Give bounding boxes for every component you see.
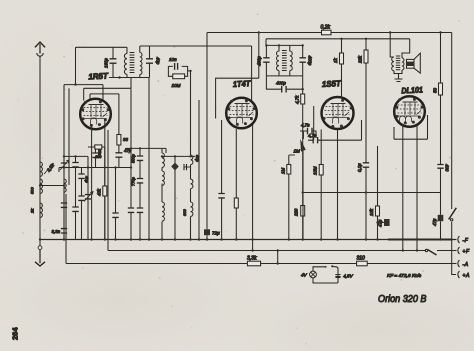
ground electrode bbox=[35, 240, 45, 267]
svg-text:40k: 40k bbox=[97, 188, 102, 196]
svg-text:4,7k: 4,7k bbox=[295, 95, 300, 104]
svg-text:4,7n: 4,7n bbox=[301, 123, 310, 128]
osc coil L3c bbox=[182, 202, 193, 240]
wire x115.5 column bbox=[112, 168, 118, 240]
capacitor x184 bbox=[184, 164, 191, 170]
antenna coil L1a bbox=[40, 162, 42, 176]
svg-text:-F: -F bbox=[463, 238, 469, 244]
svg-text:DL101: DL101 bbox=[401, 85, 423, 95]
V2 box bbox=[216, 78, 259, 118]
wire V1 cathode drop bbox=[91, 125, 93, 239]
resistor 40k bbox=[97, 186, 107, 196]
wire T1 left drop bbox=[75, 47, 77, 84]
wire V1 box top bbox=[84, 88, 131, 100]
svg-text:3,3k: 3,3k bbox=[247, 256, 257, 262]
resistor x236 bbox=[234, 129, 238, 240]
speaker cone bbox=[414, 53, 420, 73]
resistor 3,3k bbox=[247, 256, 261, 266]
svg-text:400p: 400p bbox=[308, 56, 313, 66]
wire V1 inner line bbox=[90, 94, 119, 135]
potentiometer 1M bbox=[294, 131, 306, 240]
wire tie y185 bbox=[40, 185, 64, 187]
capacitor 4,7n b bbox=[308, 133, 362, 143]
wire V4 fil drops bbox=[403, 124, 417, 251]
resistor 1k bbox=[333, 39, 344, 98]
resistor 150 bbox=[95, 145, 102, 159]
svg-text:220: 220 bbox=[294, 208, 299, 217]
svg-text:1S5T: 1S5T bbox=[322, 79, 342, 89]
capacitor 400p left bbox=[257, 45, 270, 76]
coil T2 primary bbox=[277, 45, 279, 76]
wire T1 bottom drop bbox=[130, 78, 132, 89]
rail R3 bbox=[140, 46, 252, 103]
osc coil L2a bbox=[162, 148, 164, 167]
B+ rail R1 bbox=[207, 33, 456, 275]
wire x75 column bbox=[72, 156, 78, 239]
svg-text:0,1μ: 0,1μ bbox=[357, 163, 362, 172]
terminal -F bbox=[453, 236, 469, 244]
svg-text:4V: 4V bbox=[301, 273, 308, 278]
capacitor 47u a bbox=[378, 219, 390, 227]
antenna coil L1c bbox=[40, 203, 42, 217]
battery 4,5V bbox=[313, 274, 354, 284]
switch lamp bbox=[313, 265, 338, 283]
resistor 50 bbox=[433, 33, 443, 165]
tube V2 1T4T bbox=[226, 98, 257, 129]
core T2 bbox=[282, 51, 287, 71]
speaker magnet bbox=[407, 59, 415, 68]
svg-text:1M: 1M bbox=[294, 149, 301, 154]
wire x199 bbox=[198, 100, 200, 240]
svg-text:40p: 40p bbox=[85, 176, 90, 183]
wire x131 drop bbox=[130, 88, 132, 207]
terminal +F bbox=[453, 247, 470, 255]
coil T1 secondary bbox=[140, 46, 142, 78]
svg-text:+A: +A bbox=[463, 273, 471, 279]
resistor 220 bbox=[294, 206, 305, 240]
wire V3 cathode bbox=[337, 130, 339, 240]
tube V3 1S5T bbox=[321, 97, 354, 129]
tuning diamond bbox=[171, 156, 179, 239]
svg-text:4,7n: 4,7n bbox=[308, 133, 317, 138]
output transformer secondary bbox=[399, 58, 405, 74]
svg-text:10M: 10M bbox=[172, 83, 181, 88]
capacitor 72u bbox=[204, 152, 220, 240]
V4 box bbox=[394, 115, 428, 139]
capacitor x140 low bbox=[137, 206, 143, 240]
svg-text:10k: 10k bbox=[369, 208, 374, 216]
coil T2 secondary bbox=[290, 45, 292, 76]
wire T2 bottom bbox=[266, 75, 302, 77]
svg-text:Orion 320 B: Orion 320 B bbox=[378, 294, 427, 305]
antenna bbox=[35, 42, 45, 240]
wire AF coupling y192.5 bbox=[303, 192, 441, 194]
svg-text:400: 400 bbox=[445, 164, 450, 172]
wire x258.8 drop bbox=[258, 33, 260, 79]
switch S2 on B+ line bbox=[449, 208, 457, 221]
wire AVC line bbox=[148, 78, 150, 240]
capacitor 400p bottom bbox=[266, 76, 302, 93]
resistor 22k bbox=[358, 39, 369, 159]
resistor 10M grid bbox=[313, 130, 324, 240]
svg-text:770p: 770p bbox=[131, 176, 136, 186]
svg-text:310: 310 bbox=[357, 256, 366, 262]
wire V1 screen line bbox=[64, 85, 103, 101]
ground bus bbox=[40, 239, 456, 241]
terminal +A bbox=[458, 271, 470, 279]
wire V1 fil drop bbox=[104, 121, 106, 240]
wire x104.8 bbox=[104, 147, 106, 240]
capacitor x131 low bbox=[128, 207, 134, 240]
svg-text:-A: -A bbox=[463, 262, 469, 268]
wire speaker B+ drop bbox=[390, 33, 394, 58]
antenna coil L1b bbox=[40, 179, 42, 193]
osc coil L3b bbox=[191, 165, 193, 202]
svg-text:KF = 472,6 Kc/s: KF = 472,6 Kc/s bbox=[387, 273, 422, 279]
bus +F bbox=[108, 130, 456, 251]
svg-text:264: 264 bbox=[11, 327, 20, 340]
core T1 bbox=[130, 53, 135, 73]
svg-text:400p: 400p bbox=[257, 56, 262, 66]
capacitor 40p bbox=[146, 46, 161, 70]
terminal -A bbox=[453, 260, 469, 268]
svg-text:150: 150 bbox=[95, 155, 102, 159]
svg-text:4,5V: 4,5V bbox=[343, 274, 353, 279]
svg-text:400p: 400p bbox=[276, 81, 286, 86]
svg-text:1T4T: 1T4T bbox=[233, 79, 252, 89]
wire antenna down lead bbox=[39, 56, 41, 239]
resistor 10k bbox=[369, 146, 380, 240]
wire tie y167 bbox=[59, 168, 88, 173]
trimmer cap C64 bbox=[60, 156, 69, 177]
svg-text:500p: 500p bbox=[131, 153, 136, 163]
wire tie y156 osc bbox=[162, 155, 195, 157]
switch S1 on +F bus bbox=[425, 249, 436, 255]
capacitor 160p bbox=[104, 47, 117, 77]
wire x88 column bbox=[84, 156, 93, 239]
svg-text:40p: 40p bbox=[156, 57, 161, 65]
osc coil L2b bbox=[162, 168, 164, 203]
resistor 1M grid bbox=[281, 155, 296, 240]
trimmer arrow L1 bbox=[44, 164, 54, 175]
tube V1 1R5T bbox=[80, 99, 111, 130]
wire x252.6 bbox=[252, 125, 254, 251]
wire left long bbox=[63, 85, 65, 240]
svg-text:0,2k: 0,2k bbox=[321, 25, 331, 31]
wire T1 bottom bbox=[109, 70, 150, 78]
wire osc tie y148 bbox=[125, 148, 166, 153]
capacitor 47u b bbox=[432, 168, 444, 239]
svg-text:72μ: 72μ bbox=[212, 231, 220, 236]
resistor 0,2k bbox=[321, 25, 332, 35]
svg-text:+F: +F bbox=[463, 249, 471, 255]
resistor 10M bbox=[168, 71, 190, 88]
resistor 4,7k bbox=[295, 89, 305, 205]
osc coil L2c bbox=[162, 202, 164, 240]
svg-text:1M: 1M bbox=[281, 168, 286, 174]
IF transformer T2 top bbox=[266, 44, 302, 46]
capacitor 25n bbox=[88, 147, 105, 168]
capacitor 0,1u bbox=[357, 159, 369, 240]
resistor 310 bbox=[357, 256, 368, 266]
svg-text:33: 33 bbox=[123, 137, 128, 142]
bus -A bbox=[66, 194, 456, 264]
svg-text:22k: 22k bbox=[358, 55, 363, 64]
rail R2 bbox=[266, 39, 410, 58]
svg-text:160p: 160p bbox=[104, 58, 109, 68]
svg-text:600: 600 bbox=[182, 209, 187, 216]
wire tie y156 bbox=[64, 155, 88, 157]
wire -A to +F link bbox=[277, 251, 279, 264]
output transformer primary bbox=[392, 57, 399, 74]
capacitor 770p bbox=[131, 176, 144, 206]
capacitor 500p bbox=[131, 148, 144, 176]
capacitor 400p right bbox=[300, 45, 313, 76]
dial lamp bbox=[301, 271, 316, 278]
wire x69 bbox=[68, 88, 70, 185]
svg-text:47μ: 47μ bbox=[432, 218, 437, 226]
coil T1 primary bbox=[124, 47, 127, 77]
svg-text:3,3n: 3,3n bbox=[52, 229, 61, 234]
wire x81.5 column bbox=[78, 168, 89, 240]
svg-text:1k: 1k bbox=[333, 58, 338, 63]
wire V3 underline bbox=[314, 106, 362, 140]
svg-text:10M: 10M bbox=[313, 166, 318, 175]
capacitor x64 low bbox=[61, 192, 67, 225]
capacitor 400p out bbox=[437, 164, 449, 172]
RC grid combo 10n bbox=[168, 57, 187, 71]
svg-text:50: 50 bbox=[433, 88, 438, 93]
coil x64 bbox=[64, 179, 66, 192]
capacitor 3,3n bbox=[52, 225, 68, 240]
wire x221.6 bbox=[218, 120, 224, 240]
speaker ground bbox=[395, 74, 403, 82]
capacitor 4,7n a bbox=[300, 123, 316, 139]
svg-text:1R5T: 1R5T bbox=[88, 71, 109, 81]
tube V4 DL101 bbox=[394, 96, 425, 127]
wire tie y167b bbox=[105, 167, 131, 169]
svg-text:500: 500 bbox=[30, 187, 35, 194]
IF transformer T1 top line bbox=[76, 46, 128, 48]
resistor 33k bbox=[115, 135, 131, 168]
core T3 bbox=[396, 56, 400, 70]
osc coil L3a bbox=[191, 151, 201, 165]
wire x190.5 grid drop bbox=[190, 71, 192, 151]
svg-text:10n: 10n bbox=[169, 57, 177, 62]
